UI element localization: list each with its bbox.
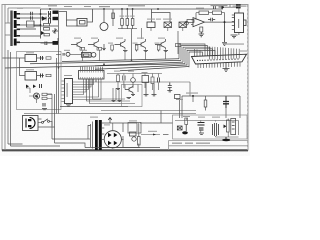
relay K3: [179, 22, 187, 28]
value label D-sub: [240, 51, 247, 52]
lamp HL1: [100, 23, 108, 31]
IC DD2 pin ticks inside: [81, 71, 103, 80]
op-amp U1: [193, 18, 205, 27]
transistor VT7 circle: [34, 93, 40, 99]
IC U2 pins: [232, 15, 235, 29]
wire left section net: [26, 88, 52, 103]
wire feedback net: [191, 13, 235, 25]
resistor R1: [44, 24, 50, 27]
transformer T3 small: [213, 123, 219, 136]
title block text row 1: [172, 143, 210, 144]
fan section box left: [128, 123, 141, 134]
value label T1: [17, 8, 23, 9]
node on top bus: [49, 8, 159, 10]
paper noise: [0, 0, 250, 156]
wire rectifier out: [123, 123, 139, 148]
relay K2: [164, 22, 172, 28]
resistor R10 feedback: [213, 11, 222, 14]
capacitor C5 near U2 bottom: [222, 22, 227, 45]
wire relay to lamp: [87, 9, 93, 22]
resistor R7: [131, 9, 134, 29]
transformer T1 primary winding bar: [10, 11, 12, 47]
ground heavy below regulator: [222, 137, 230, 141]
value label midparts2: [128, 71, 134, 72]
wire U2 down: [238, 33, 240, 36]
value labels top: [48, 5, 247, 9]
wire MCU bottom: [60, 106, 128, 108]
resistor R19: [42, 97, 47, 99]
IC U2 label: [238, 19, 239, 28]
node junction: [40, 13, 51, 26]
ground below op-amp: [199, 32, 205, 37]
label right mid: [186, 93, 198, 94]
value labels relay row: [147, 19, 172, 20]
wire arrow target dash: [163, 134, 169, 136]
capacitor C8: [40, 84, 42, 88]
relay K1 coil core: [80, 21, 86, 25]
value label T2: [90, 117, 98, 118]
MCU DD1 left pins: [62, 81, 65, 102]
IC DD2 wide: [79, 71, 105, 80]
wire left cluster bottom: [34, 21, 58, 26]
wire staircase to relay K1: [59, 12, 78, 27]
transistor VT4: [135, 39, 146, 50]
sensor circle B1: [66, 52, 70, 56]
wire plug to verticals: [38, 119, 55, 127]
wire relay K3 drop long: [177, 31, 179, 54]
transistor VT5: [155, 39, 166, 50]
zener VD5: [130, 132, 137, 136]
resistor R18: [42, 93, 47, 95]
capacitor C14 vertical: [227, 120, 230, 132]
IC DD2 top pins: [81, 67, 103, 71]
diode VD8 below VT2: [103, 44, 106, 50]
value labels transistor row: [74, 38, 165, 39]
capacitor C6: [41, 56, 43, 60]
ground blob regulator left: [182, 125, 188, 135]
resistor R2: [44, 28, 50, 31]
transformer T1 secondary winding segments: [14, 11, 17, 46]
value label boxB: [26, 69, 34, 70]
enclosure box left section: [17, 52, 62, 110]
resistor R21 vertical: [151, 77, 154, 84]
transistor VT3: [115, 39, 126, 50]
module A2 box: [25, 72, 37, 81]
wire BM internals: [125, 85, 138, 93]
wire B1: [56, 53, 82, 55]
plug XP1 pins: [28, 119, 31, 127]
switch SA1: [42, 119, 50, 124]
power arrow T2 top: [108, 118, 112, 124]
node op-amp out: [224, 21, 226, 23]
resistor R15 left of VT5: [157, 45, 160, 50]
wire relay drops: [151, 28, 183, 32]
optocoupler U3: [177, 126, 182, 130]
transistor VT2: [88, 39, 99, 50]
capacitor C4 series: [208, 18, 215, 22]
wire parts top feed: [107, 74, 162, 89]
value label R14: [133, 43, 138, 44]
wire cell emitter drops to bus: [82, 50, 165, 61]
resistor R16: [46, 57, 51, 59]
MCU DD1 DIP: [65, 79, 73, 104]
border frame right dashed line: [247, 5, 249, 150]
relay K4 box: [82, 53, 92, 58]
ground below U2: [231, 35, 238, 38]
wire bottom long: [85, 147, 160, 149]
wire row y28.7: [118, 28, 137, 30]
value label T3: [212, 117, 220, 118]
ground below D-sub: [223, 63, 230, 72]
resistor R5: [121, 9, 124, 29]
module A1 box: [25, 55, 37, 62]
relay K4 inner: [84, 54, 90, 56]
ground C18: [167, 91, 172, 92]
capacitor C13 bars: [199, 128, 204, 130]
wire regulator top rail: [175, 120, 239, 122]
wire lamp to bus: [103, 9, 105, 23]
ground BM: [127, 95, 136, 99]
wire loop to relays: [152, 9, 171, 22]
ground left section: [42, 109, 47, 110]
box component right mid: [175, 95, 181, 99]
ground driver stage: [112, 101, 122, 102]
D-sub pins below: [198, 62, 240, 68]
diode VD2: [42, 17, 46, 21]
D-sub pins: [210, 47, 240, 60]
bridge rectifier VD4 circle: [104, 131, 121, 148]
mains filter box: [27, 21, 35, 27]
node y96: [192, 95, 194, 97]
wire second vertical drop: [179, 99, 181, 119]
value label cluster3: [84, 6, 91, 7]
regulator section box: [173, 115, 248, 139]
wire top bus: [41, 8, 224, 10]
wire U2 top: [238, 5, 240, 14]
resistor R3: [44, 34, 50, 36]
value label plug: [24, 113, 33, 114]
connector XS1 circle: [185, 21, 189, 25]
transistor VT7 dot: [36, 95, 38, 97]
resistor R14 left of VT4: [135, 45, 138, 50]
capacitor C2 block: [53, 11, 59, 14]
value label R13: [108, 43, 113, 44]
value label fan box: [129, 120, 137, 121]
capacitor C19 row2: [45, 42, 47, 46]
node bus junctions: [58, 59, 133, 68]
rectifier diode VD1 cluster top-left: [20, 9, 58, 43]
label mid bottom: [148, 131, 157, 132]
resistor R26 below op-amp: [200, 27, 203, 32]
wire bus line3: [95, 62, 183, 66]
resistor R8 op-amp input: [187, 20, 194, 23]
value label XT1: [142, 72, 148, 73]
plug box XP1: [23, 116, 39, 131]
wire bus line2: [30, 60, 181, 63]
ground MCU: [66, 105, 71, 106]
D-sub pin dots: [197, 58, 239, 61]
wire bus line6: [120, 67, 189, 71]
resistor R17: [46, 74, 51, 76]
capacitor C15 top right: [236, 4, 241, 8]
value label cluster2: [64, 6, 72, 7]
wire verticals right mid: [182, 96, 240, 118]
resistor R12 under VT2: [97, 47, 102, 50]
resistor R22 vertical: [204, 100, 207, 107]
motor M1 circle: [91, 53, 96, 58]
enclosure box BM section: [122, 85, 143, 107]
value label K4: [80, 50, 87, 51]
IC U2 tab: [244, 20, 247, 26]
connector mark left: [63, 53, 64, 56]
resistor R25 vertical: [185, 118, 188, 125]
D-sub connector X1: [192, 54, 247, 64]
capacitor C20 block row2: [53, 41, 59, 45]
value label C12: [198, 117, 205, 118]
cap diode row above: [214, 5, 222, 9]
diode VD3: [41, 31, 45, 35]
title block: [169, 141, 249, 151]
sensor circle B2: [131, 78, 136, 83]
wire mains to T1: [5, 8, 41, 35]
bridge wires: [102, 123, 124, 149]
resistor R6: [126, 9, 129, 29]
border frame outer: [2, 5, 248, 151]
speaker box LS1: [147, 22, 155, 28]
capacitor C12 bars: [198, 123, 205, 126]
wire right mid y96: [182, 95, 240, 97]
resistor R9 feedback: [199, 11, 209, 14]
wire top right link: [225, 5, 236, 8]
transistor VT8 in BM box: [125, 87, 133, 95]
wire mid horizontal lines: [30, 80, 196, 114]
capacitor C18 hanging: [168, 83, 172, 91]
resistor R20 vertical: [117, 75, 120, 82]
resistor R24 on K3 drop: [176, 44, 181, 47]
diode VD7: [222, 5, 225, 9]
resistor R13 left of VT3: [111, 45, 114, 50]
box XT1: [142, 76, 149, 83]
value label regulator R: [183, 116, 190, 117]
transformer T1 secondary taps: [17, 13, 20, 43]
wire row2 links: [41, 42, 53, 44]
wire bus line4: [5, 64, 185, 68]
value label DD1 top: [64, 75, 72, 76]
wire bus line5: [95, 65, 187, 69]
wire bus line1: [62, 59, 179, 62]
ground regulator mid: [199, 133, 204, 134]
wire MCU bus fan: [73, 79, 102, 100]
transformer T2 core bars: [95, 120, 98, 150]
wire parts bottom: [153, 83, 159, 91]
wire vertical pair left: [47, 94, 55, 143]
ground parts row: [116, 83, 157, 96]
plug XP1 symbol: [26, 118, 35, 129]
ground marks transistor row: [112, 50, 168, 52]
diode VD6: [224, 125, 227, 129]
border frame bottom heavy line: [2, 149, 248, 151]
bridge rectifier VD4 diodes: [108, 133, 117, 145]
trimmer RP1: [52, 28, 58, 34]
wire bus staircase up: [179, 44, 215, 67]
capacitor C11: [223, 97, 229, 109]
fan circle: [132, 137, 136, 141]
value label B1: [64, 50, 70, 51]
value label DD1: [67, 83, 68, 97]
border frame left inner line: [4, 5, 6, 151]
wire lamp drop x131.5: [131, 29, 133, 61]
wire T2 primary feed: [88, 126, 91, 140]
value label R15: [155, 43, 160, 44]
capacitor C7: [41, 74, 43, 78]
value label bridge: [104, 124, 110, 125]
wire D-sub feed drops short: [195, 49, 201, 56]
capacitor C1: [49, 11, 51, 24]
capacitor C9: [43, 103, 45, 107]
capacitor C10: [157, 78, 159, 83]
value label near C5: [224, 44, 244, 45]
resistor R4 vertical: [112, 9, 115, 26]
wire DD2 drop bundle: [87, 79, 136, 104]
relay K1: [77, 19, 87, 27]
driver stage verticals: [113, 88, 119, 100]
transistor VT7 leads: [35, 94, 38, 98]
resistor R11 under VT1: [80, 47, 85, 50]
value label midparts1: [114, 71, 120, 72]
wire T2 right: [102, 123, 140, 148]
capacitor C9b: [123, 76, 125, 81]
IC U2: [235, 13, 244, 33]
indicator tube HG1: [231, 119, 236, 135]
value labels R567: [120, 16, 135, 17]
transistor VT1: [71, 39, 82, 50]
capacitor C16 on tap wire: [31, 12, 33, 16]
wire bottom runs: [8, 50, 90, 148]
diode row below modules: [26, 85, 36, 89]
wire left modules: [3, 58, 45, 76]
wire regulator net: [186, 118, 238, 137]
wire long vertical feeders: [57, 11, 59, 114]
label far label: [176, 99, 183, 100]
capacitor C17 on tap wire: [31, 16, 33, 20]
value label boxA: [26, 52, 34, 53]
transformer T2 winding left: [91, 122, 93, 149]
wire VT4 riser: [140, 28, 142, 39]
capacitor C3 block: [53, 17, 59, 20]
wire into regulator: [140, 111, 173, 124]
wire arrow line: [141, 134, 160, 136]
resistor R23 vertical bottom: [138, 137, 141, 146]
